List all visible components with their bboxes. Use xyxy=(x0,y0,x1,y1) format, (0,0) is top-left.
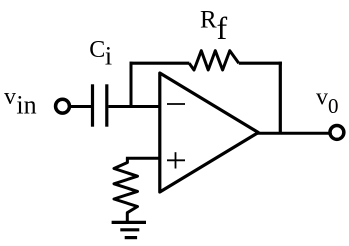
wire feedback right vertical xyxy=(279,62,282,134)
svg-text:0: 0 xyxy=(328,94,339,118)
wire output xyxy=(257,132,329,135)
svg-text:f: f xyxy=(217,10,228,46)
svg-text:R: R xyxy=(200,7,217,34)
capacitor Ci plate 1 xyxy=(91,84,94,126)
resistor Rf xyxy=(189,51,239,70)
op-amp U1 xyxy=(160,73,258,192)
wire Rf to right corner xyxy=(239,62,282,65)
svg-text:i: i xyxy=(105,42,112,71)
svg-text:v: v xyxy=(316,84,328,110)
svg-text:v: v xyxy=(4,84,16,110)
svg-text:in: in xyxy=(16,91,36,120)
wire Ci to op-amp minus input xyxy=(108,105,161,108)
wire plus input xyxy=(126,157,161,160)
ground xyxy=(112,221,146,224)
node vin terminal xyxy=(56,99,70,113)
wire vin to Ci xyxy=(71,105,91,108)
wire top horizontal to Rf xyxy=(130,62,190,65)
svg-text:C: C xyxy=(89,37,105,63)
op-amp plus sign xyxy=(167,159,185,161)
op-amp minus sign xyxy=(167,103,185,105)
wire feedback riser at node xyxy=(130,62,133,107)
capacitor Ci plate 2 xyxy=(105,84,108,126)
resistor R1 (to ground) xyxy=(114,158,138,221)
node vo terminal xyxy=(330,125,344,139)
